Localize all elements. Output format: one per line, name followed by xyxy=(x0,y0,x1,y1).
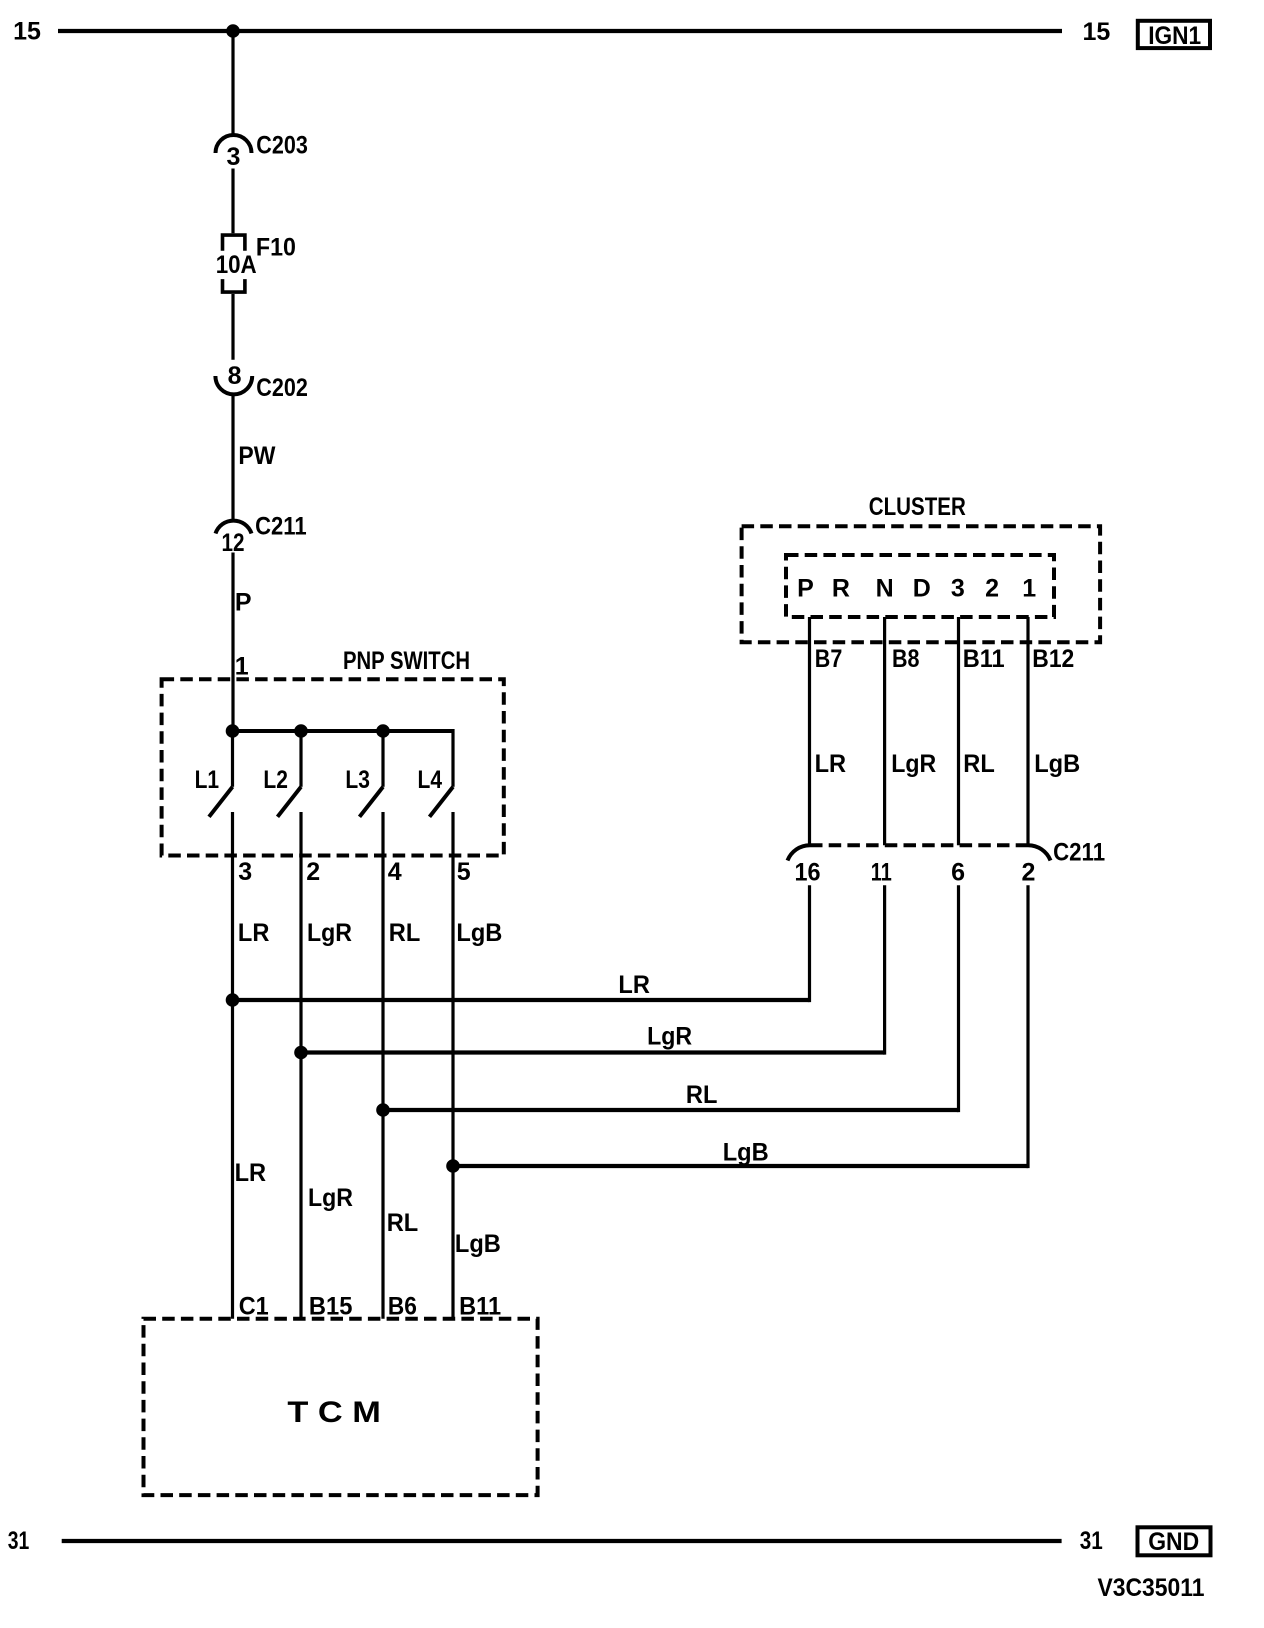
svg-text:C211: C211 xyxy=(255,513,307,541)
wire: C203 to fuse F10 xyxy=(231,169,234,234)
connector C211 (multi-pin) xyxy=(788,838,1106,866)
svg-text:LgR: LgR xyxy=(647,1023,692,1051)
switch L2 xyxy=(263,731,301,817)
svg-text:LgB: LgB xyxy=(456,919,502,947)
wire: cluster pin B12 down to C211 xyxy=(1026,617,1029,845)
wire: bottom ground rail 31 xyxy=(62,1539,1062,1543)
wire: cluster pin B11 down to C211 xyxy=(957,617,960,845)
svg-text:RL: RL xyxy=(389,919,421,947)
svg-text:T C M: T C M xyxy=(287,1396,381,1429)
svg-text:LR: LR xyxy=(815,750,847,778)
wire: internal bus xyxy=(233,729,454,733)
svg-text:3: 3 xyxy=(227,143,241,171)
svg-text:C203: C203 xyxy=(256,132,308,160)
wire: cluster pin B7 down to C211 xyxy=(808,617,811,845)
node: bus junction 3 xyxy=(376,724,390,738)
svg-text:D: D xyxy=(913,575,931,603)
connector C211 (inline) xyxy=(216,513,307,558)
svg-text:15: 15 xyxy=(13,18,41,46)
svg-text:LgR: LgR xyxy=(891,750,936,778)
wire: top supply rail 15 xyxy=(58,29,1062,33)
svg-text:P: P xyxy=(797,575,814,603)
wire RL: switch L3 pin 4 down to TCM B6 xyxy=(381,812,384,1319)
PNP SWITCH dashed box xyxy=(162,679,504,855)
svg-text:B11: B11 xyxy=(459,1293,501,1321)
wire: LgB branch to cluster pin 2 xyxy=(453,1164,1028,1168)
svg-text:3: 3 xyxy=(238,858,252,886)
svg-text:2: 2 xyxy=(1022,859,1036,887)
svg-text:1: 1 xyxy=(235,653,249,681)
svg-text:LR: LR xyxy=(618,971,650,999)
switch L4 xyxy=(418,729,454,817)
svg-text:R: R xyxy=(832,575,850,603)
svg-text:LgB: LgB xyxy=(723,1139,769,1167)
wire PW: C202 to C211 xyxy=(231,393,234,520)
wire: RL branch to cluster pin 6 xyxy=(383,1108,959,1112)
svg-text:GND: GND xyxy=(1148,1528,1199,1556)
svg-text:IGN1: IGN1 xyxy=(1148,22,1201,50)
svg-text:LgB: LgB xyxy=(455,1230,501,1258)
fuse F10 10A xyxy=(216,233,296,292)
svg-text:3: 3 xyxy=(951,575,965,603)
svg-text:LR: LR xyxy=(238,919,270,947)
wire: LR branch to cluster pin 16 xyxy=(233,998,810,1002)
svg-text:LgR: LgR xyxy=(308,1184,353,1212)
svg-text:11: 11 xyxy=(871,859,892,887)
wire LgR: switch L2 pin 2 down to TCM B15 xyxy=(299,812,302,1319)
svg-text:F10: F10 xyxy=(256,233,296,261)
svg-text:LgB: LgB xyxy=(1034,750,1080,778)
connector C203 xyxy=(216,132,308,172)
svg-text:15: 15 xyxy=(1083,18,1111,46)
svg-text:5: 5 xyxy=(457,858,471,886)
svg-text:L1: L1 xyxy=(195,766,220,794)
node: junction LR branch xyxy=(226,993,240,1007)
svg-text:B11: B11 xyxy=(963,645,1005,673)
svg-text:PNP SWITCH: PNP SWITCH xyxy=(343,647,470,675)
svg-text:10A: 10A xyxy=(216,251,257,279)
svg-text:L3: L3 xyxy=(345,766,370,794)
svg-text:4: 4 xyxy=(388,858,402,886)
CLUSTER inner dashed box (PRND321 indicator) xyxy=(786,555,1054,617)
node: bus junction 2 xyxy=(294,724,308,738)
wire: from rail 15 down to C203 xyxy=(231,31,234,137)
connector C202 xyxy=(215,362,307,402)
svg-text:PW: PW xyxy=(238,442,275,470)
wire: LgR branch to cluster pin 11 xyxy=(301,1050,885,1054)
svg-text:31: 31 xyxy=(1080,1527,1103,1555)
wire LgB: switch L4 pin 5 down to TCM B11 xyxy=(451,812,454,1319)
svg-text:6: 6 xyxy=(951,859,965,887)
wire: cluster pin B8 down to C211 xyxy=(883,617,886,845)
svg-text:B7: B7 xyxy=(815,645,843,673)
node: junction LgB branch xyxy=(446,1159,460,1173)
node: junction on rail 15 xyxy=(226,24,240,38)
switch L1 xyxy=(195,731,233,817)
svg-text:RL: RL xyxy=(686,1081,718,1109)
svg-text:P: P xyxy=(235,589,252,617)
svg-text:LgR: LgR xyxy=(307,919,352,947)
node: junction LgR branch xyxy=(294,1046,308,1060)
svg-text:CLUSTER: CLUSTER xyxy=(869,493,966,521)
svg-text:16: 16 xyxy=(795,859,821,887)
wire: fuse F10 to C202 xyxy=(231,294,234,360)
svg-text:B8: B8 xyxy=(892,645,920,673)
svg-text:C211: C211 xyxy=(1053,838,1105,866)
power symbol IGN1 box xyxy=(1138,21,1210,50)
svg-text:B15: B15 xyxy=(309,1293,353,1321)
wire LR: switch L1 pin 3 down to TCM C1 xyxy=(231,812,234,1319)
svg-text:V3C35011: V3C35011 xyxy=(1098,1574,1205,1602)
svg-text:RL: RL xyxy=(963,750,995,778)
svg-text:2: 2 xyxy=(306,858,320,886)
TCM dashed box xyxy=(144,1319,538,1495)
svg-text:31: 31 xyxy=(8,1527,30,1555)
svg-text:B6: B6 xyxy=(388,1293,417,1321)
svg-text:C202: C202 xyxy=(256,374,308,402)
svg-text:RL: RL xyxy=(387,1209,419,1237)
CLUSTER outer dashed box xyxy=(742,526,1101,642)
switch L3 xyxy=(345,731,383,817)
node: junction RL branch xyxy=(376,1103,390,1117)
wire P: C211 to PNP switch pin 1 xyxy=(231,553,234,732)
svg-text:N: N xyxy=(876,575,894,603)
svg-text:LR: LR xyxy=(235,1159,267,1187)
svg-text:8: 8 xyxy=(228,362,242,390)
svg-text:L2: L2 xyxy=(263,766,288,794)
svg-text:1: 1 xyxy=(1022,575,1036,603)
svg-text:L4: L4 xyxy=(418,766,443,794)
svg-text:C1: C1 xyxy=(239,1293,269,1321)
node: bus junction 1 xyxy=(226,724,240,738)
ground symbol GND box xyxy=(1138,1527,1211,1556)
svg-text:B12: B12 xyxy=(1032,645,1074,673)
svg-text:2: 2 xyxy=(985,575,999,603)
